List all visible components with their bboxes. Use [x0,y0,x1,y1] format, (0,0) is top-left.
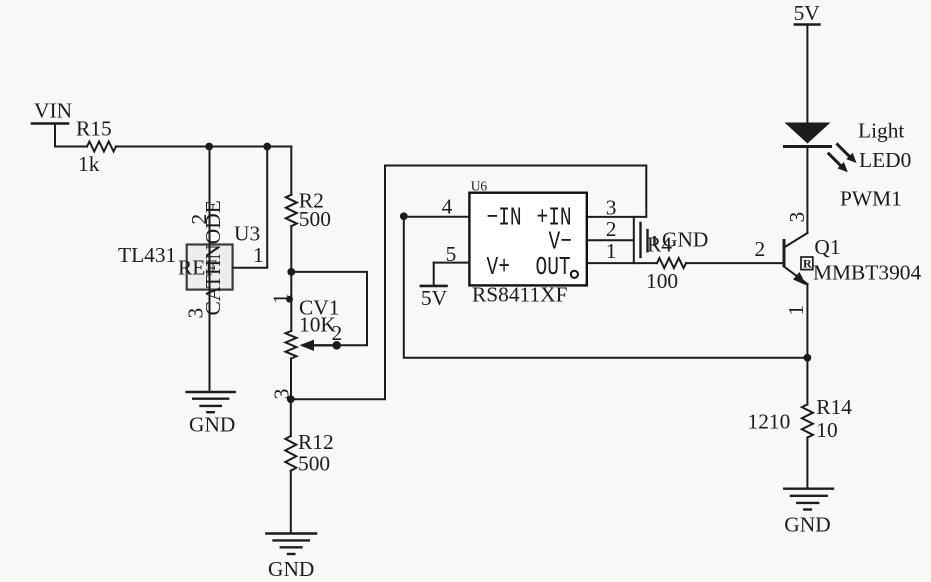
junction dot A [205,143,213,151]
wire pin4 [404,216,470,218]
wire wiper loop [291,272,367,345]
svg-text:MMBT3904: MMBT3904 [813,261,921,285]
wire rail to U3 cathode [209,147,211,392]
junction dot emitter node [804,354,812,362]
power 5V (top) [795,25,820,123]
svg-text:R15: R15 [76,117,112,141]
wire -IN feedback [404,217,808,358]
svg-text:R: R [803,257,812,271]
wire node3 to +IN rail [291,166,647,400]
svg-text:Light: Light [858,119,904,143]
svg-text:5: 5 [446,242,457,266]
junction dot B [263,143,271,151]
wire U3 pin1 to rail [233,147,268,268]
svg-text:U3: U3 [234,222,260,246]
svg-text:TL431: TL431 [118,243,176,267]
svg-text:U6: U6 [471,179,488,194]
svg-text:500: 500 [299,207,331,231]
svg-text:100: 100 [646,269,678,293]
svg-text:1: 1 [784,305,808,316]
svg-text:VIN: VIN [34,99,72,123]
potentiometer CV1 [286,272,297,399]
resistor R12 [285,399,296,533]
svg-text:CATHNODE: CATHNODE [201,200,225,315]
svg-text:OUT: OUT [536,253,571,282]
svg-text:−IN: −IN [487,203,522,232]
wire connector pins 3-2-1 [633,217,635,263]
svg-text:LED0: LED0 [859,148,911,172]
junction dot pot pin1 [286,296,293,303]
svg-text:V+: V+ [487,253,510,282]
resistor R2 [286,195,297,226]
LED LED0 [785,123,857,173]
wire R2 to pot node [290,226,292,272]
svg-text:R14: R14 [816,395,852,419]
power 5V (op-amp) [421,263,447,286]
svg-text:RS8411XF: RS8411XF [472,283,568,307]
junction dot pot top [287,268,295,276]
node 3 junction dot [287,395,295,403]
svg-text:GND: GND [268,557,314,581]
svg-text:10: 10 [816,418,837,442]
wire R4 to base [686,262,784,264]
wire pin1 OUT [587,262,657,264]
svg-text:Q1: Q1 [814,235,840,259]
op-amp U6 body [469,193,586,286]
svg-text:GND: GND [189,413,235,437]
ground GND under U3 [187,392,235,412]
voltage reference U3 body [187,245,233,290]
polarity circle [571,271,578,278]
svg-text:3: 3 [269,389,293,400]
junction dot wiper pin2 [332,341,341,350]
svg-text:5V: 5V [794,1,821,25]
svg-text:1k: 1k [78,152,100,176]
svg-text:2: 2 [606,217,617,241]
svg-text:1: 1 [253,243,264,267]
svg-text:1: 1 [606,239,617,263]
wire VIN to R15 [55,146,87,148]
svg-text:3: 3 [606,196,617,220]
power flag VIN [32,124,68,147]
svg-text:R4: R4 [647,233,672,257]
wire pin5 [434,262,470,264]
svg-text:2: 2 [755,237,766,261]
junction dot pin4 [400,212,408,220]
boxed R mark [801,257,813,271]
wire emitter down [806,284,808,358]
ground GND under R12 [266,534,316,555]
svg-text:500: 500 [298,452,330,476]
svg-text:R12: R12 [298,430,334,454]
svg-text:4: 4 [442,195,453,219]
wiper arrow [300,340,337,351]
wire pin2 [587,239,634,241]
svg-text:GND: GND [784,513,830,537]
transistor Q1 [784,233,807,286]
resistor R15 [87,142,116,152]
wire rail corner down to R2 [290,147,292,195]
svg-text:5V: 5V [421,286,448,310]
svg-text:PWM1: PWM1 [840,187,902,211]
wire collector to LED [806,147,808,234]
svg-text:3: 3 [785,212,809,223]
svg-text:2: 2 [332,321,343,345]
ground GND under R14 [784,489,833,510]
svg-text:1210: 1210 [748,410,791,434]
ground (rotated) at V- [641,223,655,257]
resistor R14 [802,358,813,488]
resistor R4 [657,258,686,268]
wire R15 to rail corner [116,146,291,148]
